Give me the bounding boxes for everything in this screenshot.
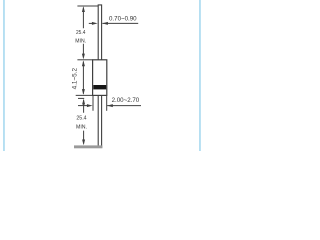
svg-text:MIN.: MIN.: [75, 39, 86, 45]
extension tick at top of lower 25.4 dimension: [78, 97, 84, 99]
body diameter 2.00~2.70: right arrow and leader: [107, 105, 141, 107]
arrowhead up (upper 25.4, top): [82, 6, 85, 12]
dimension line 25.4 MIN (upper), broken for label: [82, 8, 84, 58]
lead (top), kinked wire outline: [98, 5, 101, 60]
arrowhead down (upper 25.4, bottom): [82, 54, 85, 60]
svg-text:25.4: 25.4: [76, 30, 85, 36]
extension of body bottom edge (left): [76, 94, 93, 96]
dimension line 25.4 MIN (lower), broken for label: [83, 100, 85, 144]
body diameter 2.00~2.70: right extension line: [106, 96, 108, 111]
arrowhead up (4.1~5.2 top): [82, 60, 85, 66]
body diameter 2.00~2.70: left extension line: [92, 96, 94, 111]
body diameter 2.00~2.70: left arrow: [78, 105, 89, 107]
table border right (light blue): [199, 0, 201, 151]
lead diameter dimension 0.70~0.90: right arrow and leader: [102, 22, 138, 24]
arrowhead down (4.1~5.2 bottom): [82, 89, 85, 95]
lead (bottom) right line: [101, 95, 103, 147]
extension of body top edge (left): [77, 59, 92, 61]
arrowhead up (lower 25.4, top): [82, 99, 85, 105]
dimension line 4.1~5.2 (body length): [82, 62, 84, 94]
board/reference bar (gray) at bottom: [74, 145, 102, 148]
lead (bottom) left line: [97, 95, 99, 147]
svg-text:2.00~2.70: 2.00~2.70: [112, 97, 140, 104]
diode body: [93, 60, 107, 96]
arrowhead down (lower 25.4, bottom): [82, 140, 85, 146]
table border left (light blue): [3, 0, 5, 151]
svg-text:4.1~5.2: 4.1~5.2: [71, 67, 78, 89]
svg-text:MIN.: MIN.: [76, 125, 87, 131]
extension tick at top of upper lead: [77, 5, 98, 7]
svg-text:0.70~0.90: 0.70~0.90: [109, 16, 137, 23]
cathode band: [93, 85, 106, 89]
svg-text:25.4: 25.4: [76, 116, 86, 122]
lead diameter dimension 0.70~0.90: left arrow: [89, 22, 94, 24]
